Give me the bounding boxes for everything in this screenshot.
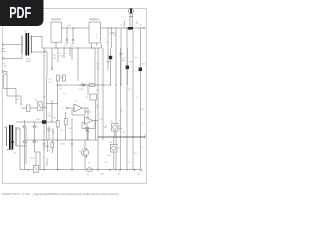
wire xyxy=(16,121,42,123)
wire rail bottom left xyxy=(20,169,85,171)
svg-text:NE5534: NE5534 xyxy=(85,112,92,114)
terminal J5 xyxy=(143,27,145,29)
svg-text:1k: 1k xyxy=(61,130,63,132)
junction dots3 xyxy=(102,84,116,85)
svg-text:R8: R8 xyxy=(96,90,98,92)
svg-text:0V: 0V xyxy=(46,166,49,168)
wire xyxy=(51,48,53,65)
svg-text:La: La xyxy=(123,17,126,19)
svg-text:D1: D1 xyxy=(25,127,27,129)
wire xyxy=(114,131,115,170)
junction dots extra xyxy=(44,28,141,171)
svg-text:22n: 22n xyxy=(105,162,108,164)
terminal earth xyxy=(2,71,21,106)
wire xyxy=(47,103,58,105)
capacitor C7 xyxy=(87,128,89,141)
resistor R2 xyxy=(63,75,66,81)
capacitor C10 blob xyxy=(109,48,112,85)
fuse F2 xyxy=(86,168,92,177)
svg-text:+V: +V xyxy=(120,25,123,27)
wire xyxy=(95,100,97,140)
svg-text:+V: +V xyxy=(140,25,143,27)
svg-text:+15: +15 xyxy=(97,69,100,71)
svg-text:22k: 22k xyxy=(128,89,131,91)
junction dots2 xyxy=(57,139,88,140)
wire xyxy=(51,100,53,122)
regulator U1 xyxy=(51,18,62,42)
svg-text:Re1: Re1 xyxy=(108,155,111,157)
transformer T2 xyxy=(7,125,17,155)
wire xyxy=(71,48,73,60)
svg-text:10n: 10n xyxy=(134,153,137,155)
wire rail bottom mid xyxy=(44,139,98,141)
svg-text:Br1: Br1 xyxy=(45,50,48,53)
svg-text:0V: 0V xyxy=(118,174,121,176)
svg-text:1u: 1u xyxy=(106,42,108,44)
node 230V mains xyxy=(1,49,6,54)
wire mid right rail xyxy=(95,84,111,86)
svg-text:47u: 47u xyxy=(135,57,138,59)
svg-text:1n: 1n xyxy=(136,97,138,99)
label smudges xyxy=(3,41,146,176)
wire rail ground xyxy=(85,169,140,171)
capacitor C1 xyxy=(64,28,68,48)
capacitor C19 xyxy=(71,144,73,145)
svg-text:+Vcc: +Vcc xyxy=(67,25,72,27)
wire xyxy=(57,81,59,115)
wire xyxy=(101,44,103,48)
svg-text:o: o xyxy=(96,37,97,39)
lamp LA1 xyxy=(123,8,139,29)
regulator U2 xyxy=(89,18,101,43)
transistor Q1 xyxy=(79,140,91,170)
svg-text:+: + xyxy=(135,41,137,43)
capacitor C16 xyxy=(52,128,54,140)
border frame xyxy=(2,9,146,184)
svg-text:In: In xyxy=(62,107,64,109)
wire xyxy=(46,77,48,140)
svg-text:Ls: Ls xyxy=(145,135,147,137)
svg-text:D4: D4 xyxy=(35,142,37,144)
wire out rail xyxy=(98,135,147,139)
capacitor C5 xyxy=(51,55,56,69)
wire xyxy=(69,48,71,56)
svg-text:100n: 100n xyxy=(142,64,146,66)
svg-text:NC: NC xyxy=(138,174,141,176)
wire xyxy=(77,48,79,81)
junction dots xyxy=(55,47,92,48)
svg-text:T1: T1 xyxy=(79,152,81,154)
wire xyxy=(63,48,65,58)
svg-text:4n7: 4n7 xyxy=(49,150,52,152)
svg-text:63V: 63V xyxy=(122,60,126,62)
capacitor C17 xyxy=(43,144,49,151)
diode D6 xyxy=(48,126,51,140)
svg-text:1Ca: 1Ca xyxy=(63,93,67,95)
svg-text:10u: 10u xyxy=(53,57,56,59)
svg-text:230V~: 230V~ xyxy=(30,158,36,160)
wire xyxy=(115,28,117,170)
svg-text:F1: F1 xyxy=(35,100,37,102)
svg-text:47u: 47u xyxy=(59,88,62,90)
svg-text:PDF: PDF xyxy=(9,5,31,22)
resistor R9 xyxy=(51,140,54,153)
svg-text:ca: ca xyxy=(88,162,91,164)
wire secondary top xyxy=(31,37,42,49)
svg-text:T500: T500 xyxy=(3,66,7,68)
svg-text:25V: 25V xyxy=(113,35,117,37)
op-amp U3A xyxy=(72,104,91,115)
zener D8 xyxy=(85,125,89,141)
svg-text:4u7: 4u7 xyxy=(122,132,125,134)
svg-text:B250: B250 xyxy=(36,119,40,121)
svg-text:100n: 100n xyxy=(60,55,64,57)
wire xyxy=(92,43,97,48)
svg-text:C7: C7 xyxy=(66,53,68,55)
wire rail 0V xyxy=(42,47,102,49)
diode D3 xyxy=(33,122,38,139)
resistor R5 xyxy=(56,115,59,140)
svg-text:P1: P1 xyxy=(119,121,121,123)
resistor R4 xyxy=(88,85,97,100)
terminal gnd out xyxy=(138,169,142,176)
svg-text:2k2: 2k2 xyxy=(61,77,64,79)
svg-text:Regulator: Regulator xyxy=(89,18,99,21)
svg-text:220u: 220u xyxy=(48,115,52,117)
svg-text:4148: 4148 xyxy=(79,89,83,91)
wire xyxy=(16,128,26,164)
svg-text:10k: 10k xyxy=(68,128,71,130)
svg-text:R10: R10 xyxy=(53,118,56,120)
svg-text:1W: 1W xyxy=(120,111,123,113)
svg-text:S1: S1 xyxy=(17,99,19,101)
svg-text:GND: GND xyxy=(100,174,105,176)
capacitor C15 xyxy=(119,85,121,170)
resistor R7 xyxy=(27,165,48,172)
capacitor C18 xyxy=(46,140,52,152)
capacitor C6 xyxy=(40,120,56,124)
wire xyxy=(126,28,128,170)
PDF badge xyxy=(0,0,44,26)
svg-text:47u: 47u xyxy=(97,107,100,109)
capacitor C8 xyxy=(106,28,110,70)
wire xyxy=(61,27,89,29)
svg-text:Ri: Ri xyxy=(27,170,29,172)
resistor R1 xyxy=(57,75,64,81)
svg-text:Regulator: Regulator xyxy=(52,18,62,21)
diode D1 xyxy=(80,84,86,87)
svg-text:20080513 173727_ v1.30.11_ _Pa: 20080513 173727_ v1.30.11_ _PaganRevNr23… xyxy=(2,192,119,196)
relay K1 xyxy=(110,121,118,131)
wire xyxy=(55,42,57,48)
svg-text:10k: 10k xyxy=(109,142,112,144)
svg-text:IC1: IC1 xyxy=(74,101,77,103)
svg-text:47u: 47u xyxy=(64,46,67,48)
capacitor C14 labels xyxy=(59,86,67,95)
wire xyxy=(71,118,73,140)
svg-text:4u7: 4u7 xyxy=(119,126,122,128)
wire xyxy=(97,48,99,170)
svg-text:10k: 10k xyxy=(110,121,113,123)
wire secondary bottom xyxy=(31,52,47,77)
svg-text:sec: sec xyxy=(17,129,20,131)
svg-text:10n: 10n xyxy=(45,147,48,149)
diode D4 xyxy=(23,139,28,170)
op-amp U3B xyxy=(82,117,98,129)
capacitor C12 blob xyxy=(126,48,129,85)
svg-text:GND1: GND1 xyxy=(60,144,65,146)
wire xyxy=(87,108,89,120)
wire stub xyxy=(47,158,48,165)
svg-text:K1: K1 xyxy=(43,97,45,99)
svg-text:o-: o- xyxy=(22,104,24,106)
wire xyxy=(94,48,96,83)
svg-text:1k: 1k xyxy=(129,162,131,164)
svg-text:Tr1: Tr1 xyxy=(24,30,27,33)
svg-text:0,1: 0,1 xyxy=(140,124,143,126)
wire xyxy=(120,48,122,85)
wire xyxy=(102,48,104,140)
wire xyxy=(58,140,72,170)
fuse F1 xyxy=(35,100,47,111)
wire rail mid xyxy=(56,84,98,86)
svg-text:40VA: 40VA xyxy=(26,60,31,63)
terminal mains L xyxy=(2,36,22,46)
svg-text:D2: D2 xyxy=(35,127,37,129)
wire xyxy=(101,27,144,29)
wire xyxy=(57,48,59,62)
svg-text:100n: 100n xyxy=(129,62,133,64)
svg-text:10u: 10u xyxy=(71,46,74,48)
diode D5 xyxy=(33,139,40,170)
svg-text:NC: NC xyxy=(140,147,143,149)
resistor R6 xyxy=(64,112,67,140)
junction dots4 xyxy=(114,136,133,137)
svg-text:mains: mains xyxy=(1,51,6,53)
svg-text:1k: 1k xyxy=(118,148,120,150)
svg-text:2W: 2W xyxy=(136,23,139,25)
svg-text:o: o xyxy=(96,34,97,36)
svg-text:D7: D7 xyxy=(86,97,88,99)
svg-text:F2: F2 xyxy=(87,175,89,177)
diode D2 xyxy=(23,120,28,139)
input terminal J6 xyxy=(66,107,74,109)
wire xyxy=(26,139,44,141)
relay K2 xyxy=(109,142,117,152)
svg-text:1k: 1k xyxy=(105,126,107,128)
wire xyxy=(4,126,7,128)
svg-text:Tr2: Tr2 xyxy=(14,152,17,155)
transformer T1 xyxy=(22,30,31,63)
capacitor C13 blob xyxy=(139,28,142,169)
svg-text:47u: 47u xyxy=(49,81,52,83)
wire xyxy=(132,30,134,170)
resistor R3 xyxy=(88,84,96,87)
terminal mains N xyxy=(2,53,22,59)
capacitor C2 xyxy=(71,28,74,48)
plug P1 xyxy=(21,104,37,112)
wire xyxy=(16,128,20,170)
capacitor C9 xyxy=(110,27,117,48)
svg-text:D3: D3 xyxy=(25,142,27,144)
wire xyxy=(43,48,45,170)
svg-text:R12: R12 xyxy=(100,119,103,121)
svg-text:R22: R22 xyxy=(141,109,144,111)
junction dots5 xyxy=(43,169,135,170)
capacitor C11 xyxy=(120,28,127,85)
